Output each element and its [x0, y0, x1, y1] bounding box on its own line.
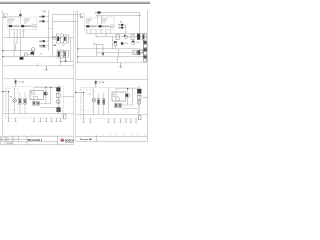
control unit dashed enclosure right [80, 88, 138, 119]
vertical rail inside left [8, 92, 10, 118]
svg-text:03: 03 [1, 140, 3, 142]
junction dot feed [139, 15, 140, 16]
pin marks right side X2 [110, 25, 113, 28]
horizontal wire net 30 [3, 37, 56, 39]
wire to frame right [62, 96, 74, 98]
connector pair row J3b [39, 45, 49, 47]
feed wire with diode D2 [94, 80, 97, 88]
actuator Y1 box [56, 107, 60, 112]
top feed wire 30 right page [96, 12, 140, 14]
contact pin sockets (circles row) [13, 25, 32, 27]
svg-text:Kl 15: Kl 15 [137, 42, 141, 44]
junction dot net15 [2, 50, 3, 51]
svg-text:30: 30 [44, 11, 46, 13]
svg-text:12: 12 [62, 45, 64, 47]
colour code chip yellow [3, 17, 4, 18]
label text block X1 right [24, 19, 30, 24]
svg-text:1 2 3: 1 2 3 [86, 22, 90, 24]
svg-text:xx: xx [13, 140, 15, 142]
svg-text:BOSCH: BOSCH [65, 140, 74, 143]
terminal strip X3 cell 1 [143, 41, 147, 44]
top rail of lower circuit right page [76, 79, 148, 81]
svg-text:24.03.99: 24.03.99 [7, 143, 14, 145]
vertical wire from J rows [125, 25, 127, 34]
resistor R3 [133, 50, 136, 55]
drop from K6 [143, 40, 145, 57]
wire down from X1 pin e [22, 30, 24, 38]
vertical rail x132.6 [132, 89, 134, 105]
svg-text:BN 2.8 GH 4: BN 2.8 GH 4 [28, 139, 43, 142]
zone label box A2 [80, 13, 85, 17]
wire into X2 pin 2 [101, 16, 103, 25]
junction node dot [60, 61, 61, 62]
vertical rail x50.8 [50, 87, 52, 104]
lower bus wire right page [108, 52, 144, 54]
horizontal wire net 31 [3, 56, 66, 58]
resistor R6 [103, 93, 105, 115]
X2 pin drop e [105, 30, 107, 37]
transistor Q2 [44, 87, 48, 104]
bottom rail of lower circuit right page [76, 113, 148, 115]
svg-text:30: 30 [120, 22, 122, 24]
bus wire lower right page [96, 36, 147, 38]
wire down from X1 pin c with jog [16, 30, 18, 51]
ground below divider left page [45, 66, 48, 71]
contact strip wire in X2 [85, 25, 113, 27]
connector box X2 (dashed) [84, 17, 114, 30]
Bosch logo armature circle [61, 139, 64, 142]
X2 pin drop f [110, 30, 112, 34]
resistor R7 small box [139, 50, 142, 53]
feed wire with diode D1 [14, 79, 17, 87]
svg-text:M4: M4 [54, 44, 56, 47]
vertical feed drop right [139, 13, 141, 34]
wire net b [78, 56, 97, 58]
svg-text:Pxxxxxx BB: Pxxxxxx BB [80, 139, 92, 141]
transistor Q5 [132, 41, 135, 45]
sensor sub-module dashed box right [81, 89, 93, 110]
horizontal wire net 15 [3, 50, 35, 52]
vertical wire right column (right page) [138, 85, 140, 114]
wire P1 down to node [60, 58, 62, 66]
svg-text:15 30 31: 15 30 31 [24, 19, 30, 21]
bus wire upper right page [87, 33, 144, 35]
label text block X1 left [8, 19, 14, 24]
connector terminal T1 [64, 115, 66, 119]
auxiliary box P2 [64, 50, 69, 57]
divider in X1 [19, 17, 21, 24]
relay K7 contact box [137, 89, 141, 94]
junction dot pin1 right [83, 92, 84, 93]
fuse F3 on bus [131, 35, 134, 40]
fuse F2 on bus [116, 35, 119, 40]
vertical drop x112.6 [112, 37, 114, 49]
filled multi-pin connector blob mid [21, 25, 25, 27]
svg-text:X1: X1 [23, 31, 25, 33]
IC U2 box [112, 92, 125, 101]
svg-text:Kl 30: Kl 30 [124, 43, 128, 45]
wire mid horizontal right page [122, 107, 138, 109]
svg-text:15 30 31: 15 30 31 [86, 19, 92, 21]
left page frame left edge [2, 11, 4, 137]
transistor Q3 [126, 89, 130, 105]
vertical rail inside left (right page) [83, 92, 85, 118]
tick wire [36, 63, 38, 66]
wire down from X1 pin b [13, 30, 15, 57]
ground pins row [8, 118, 62, 121]
connector pair row J3 lower [39, 20, 49, 22]
relay K3 coil box [56, 93, 60, 97]
dashed branch line [62, 105, 64, 120]
junction dot frame left [2, 91, 3, 92]
pin marks right side of X1 [33, 25, 36, 28]
right page title block frame [76, 136, 148, 141]
motor M1 symbol [31, 48, 35, 57]
wire frame to pin 1 [3, 91, 9, 93]
return wire right side [70, 38, 72, 62]
link wire between buses [49, 28, 53, 30]
junction dot pin1 [8, 91, 9, 92]
stub wire to divider right page [117, 57, 119, 63]
connector pair row J4 upper [118, 24, 126, 26]
wire mid horizontal [40, 107, 56, 109]
wire down from X1 pin d [20, 30, 22, 58]
colour chip blue right page [82, 17, 83, 18]
inline connector K on wire [53, 36, 55, 39]
ruler ticks right page [96, 134, 145, 136]
svg-text:H1: H1 [10, 96, 12, 98]
vertical wire bus A [48, 10, 50, 51]
relay K4 with socket [124, 35, 128, 39]
fuse F1 on stub [19, 14, 21, 16]
X2 pin drop c [95, 30, 97, 37]
connector box X1 (dashed) [7, 17, 37, 29]
vertical rail x108.6 [108, 88, 110, 114]
svg-text:S2 15A: S2 15A [99, 81, 105, 84]
transistor Q1 [20, 53, 31, 60]
vertical wire right column [57, 85, 59, 114]
long wire to right page upper [53, 14, 78, 16]
connector pair row J5 lower [118, 27, 126, 29]
junction dot rail a [77, 48, 78, 49]
vertical drop x118.6 [118, 49, 120, 57]
svg-text:Bl 4: Bl 4 [6, 138, 9, 140]
left page title block frame [1, 136, 74, 145]
lamp H2 [92, 88, 96, 115]
wire top rail into U1 [33, 87, 35, 91]
junction dot net31 [2, 56, 3, 57]
socket circle on feed [95, 12, 96, 13]
relay K7 coil box [137, 95, 141, 99]
junction dot Q3 top [127, 88, 128, 89]
wire C2 to Q2 collector [38, 104, 51, 106]
inline connector blob on feed [97, 11, 100, 13]
svg-text:Bl 2: Bl 2 [6, 140, 9, 142]
wire net a [78, 48, 140, 50]
terminal strip X3 cell 2 [143, 45, 147, 48]
junction dot Q2 top [45, 87, 46, 88]
svg-text:12: 12 [1, 138, 3, 140]
relay K5 block [137, 34, 140, 40]
bosch sub line [65, 141, 73, 144]
wire to frame right (right page) [143, 96, 148, 98]
X2 pin drop b [90, 30, 92, 34]
right page frame right edge [146, 11, 148, 142]
top dark page edge bar [0, 2, 150, 3]
connector pair row J2b [39, 40, 49, 42]
ground pins row right page [83, 119, 138, 122]
relay K6 block with pins [142, 34, 146, 41]
resistor R5 [97, 93, 99, 115]
filled connector blob X2 left [86, 25, 90, 27]
junction dot x50.8 [50, 87, 51, 88]
revision table text row3 [7, 143, 14, 145]
top rail of lower circuit [3, 78, 74, 80]
svg-text:1 2 3: 1 2 3 [24, 22, 28, 24]
wire from K2 to frame [69, 37, 74, 39]
wire from frame to connector box X1 [7, 16, 20, 18]
inline fuse small box [121, 42, 123, 45]
relay K3 contact box [56, 87, 60, 91]
resistor R1 [19, 92, 21, 114]
lamp H1 [13, 87, 17, 114]
colour code chip blue [5, 17, 6, 18]
resistor R4 [137, 50, 140, 55]
colour chip yellow right page [80, 17, 81, 18]
arrow terminal [65, 57, 67, 63]
wire net c [97, 56, 144, 58]
blue code mark at J2 [43, 10, 44, 11]
wire U1 to C1 C2 [33, 99, 35, 101]
X2 pin drop a [86, 30, 88, 34]
X2 pin drop d [100, 30, 102, 34]
wire C4 to Q3 collector [120, 105, 133, 108]
transistor Q4 [114, 41, 117, 49]
terminal strip X3 cell 4 [143, 52, 147, 55]
left page frame right edge [73, 11, 75, 145]
svg-text:S1 15A: S1 15A [18, 80, 24, 83]
svg-text:xx: xx [13, 138, 15, 140]
section divider line left page [3, 65, 74, 67]
vertical wire bus B [52, 15, 54, 57]
contact socket circles X2 [90, 26, 109, 28]
wire into X2 pin [97, 13, 99, 25]
sensor sub-module dashed box [6, 89, 18, 110]
capacitor C2 [37, 101, 39, 105]
connector terminal T2 [139, 115, 141, 119]
section divider line right page [76, 62, 148, 64]
svg-text:GH 04: GH 04 [31, 94, 36, 96]
right page frame left edge [75, 11, 77, 142]
valve Y2 frame [94, 42, 108, 57]
top feed wire 15 right page [96, 15, 140, 17]
wire upper rail inside box [34, 86, 56, 88]
revision table text row2 [1, 140, 15, 142]
svg-text:15 30 31: 15 30 31 [8, 19, 14, 21]
wire upper rail inside box right [116, 88, 138, 90]
svg-text:2,8 GH: 2,8 GH [40, 47, 46, 49]
terminal strip X3 cell 3 [143, 48, 147, 51]
relay K1 box [56, 34, 63, 43]
IC U1 box [30, 90, 43, 99]
junction dot rail b [77, 56, 78, 57]
ground below divider right page [119, 63, 122, 68]
long wire to right page lower [53, 21, 78, 23]
relay K2 box [63, 35, 68, 43]
sensor B2 symbol [137, 100, 141, 104]
capacitor C3 [115, 103, 117, 108]
svg-text:H2: H2 [89, 94, 91, 96]
revision table text row1 [1, 138, 15, 140]
dashed branch line right page [137, 106, 139, 121]
svg-text:1 2 3: 1 2 3 [8, 22, 12, 24]
left rail wire right page [77, 10, 79, 63]
zone label box A1 [3, 13, 8, 17]
terminal strip X3 cell 5 [143, 55, 147, 58]
filled connector blob X2 mid [98, 25, 102, 27]
sensor B1 symbol [56, 100, 60, 104]
svg-text:GH 04: GH 04 [113, 96, 118, 98]
svg-text:15 30 31: 15 30 31 [101, 19, 107, 21]
contact strip wire in X1 [8, 25, 36, 27]
svg-text:1 2 3: 1 2 3 [101, 22, 105, 24]
resistor R2 [24, 92, 26, 114]
connector pair row J2 upper [39, 16, 49, 18]
wire stub above X1 [19, 10, 21, 18]
socket circle lower [40, 53, 42, 55]
control unit dashed enclosure [5, 87, 63, 118]
junction dot frame left right page [75, 92, 76, 93]
ruler ticks left page [10, 135, 66, 136]
wire down from X1 pin a [9, 30, 11, 38]
capacitor C4 [119, 103, 121, 108]
terminal strip X3 cell 6 [143, 59, 147, 62]
label text block X2 right [101, 19, 107, 24]
bottom rail of lower circuit [3, 113, 74, 115]
capacitor C1 [33, 101, 35, 105]
filled multi-pin connector blob left [9, 25, 13, 27]
wire frame to pin 1 right [76, 91, 84, 93]
label text block X2 left [86, 19, 92, 24]
pump unit P1 box [57, 50, 63, 58]
wire top rail into U2 [115, 88, 117, 92]
wire node to frame [61, 60, 74, 62]
